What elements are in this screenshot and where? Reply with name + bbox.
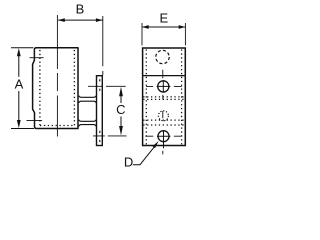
dimension B right extension line [102, 16, 104, 75]
vertical centerline front view [162, 70, 164, 155]
dimension A arrowhead up [17, 48, 21, 56]
svg-text:B: B [76, 2, 85, 17]
plate hidden line left [145, 50, 147, 145]
dimension E arrow line [142, 26, 185, 28]
middle hole circle [158, 81, 169, 92]
svg-text:D: D [124, 155, 133, 170]
middle hole crosshair [157, 80, 171, 92]
dimension E arrowhead right [179, 25, 186, 29]
bottom hole centerline dashes [145, 135, 181, 137]
body bore hidden line bottom [40, 125, 75, 127]
dimension A extension line bottom [11, 128, 34, 130]
hidden circle lower [158, 111, 168, 121]
dimension C arrowhead down [119, 126, 123, 135]
flange upper hole hidden dashes [99, 79, 101, 91]
lower hole centerline side view [93, 135, 127, 137]
plate hidden line right [181, 50, 183, 145]
front plate outline [143, 48, 186, 146]
middle hole centerline dashes [146, 85, 182, 87]
dimension A arrowhead down [17, 120, 21, 128]
hidden dots row upper a [143, 96, 185, 98]
body bore hidden line left [39, 50, 41, 126]
svg-text:A: A [15, 76, 24, 91]
dimension C arrow line lower [120, 117, 122, 132]
upper pin top line [79, 96, 97, 98]
dimension E arrowhead left [142, 25, 149, 29]
dimension B arrowhead left [58, 18, 65, 22]
lower pin bottom line [79, 125, 97, 127]
dimension E right extension [184, 23, 186, 45]
hidden circle top [156, 50, 169, 63]
dimension A arrow line upper [18, 53, 20, 77]
dimension B arrow line [58, 19, 102, 21]
bottom hole circle [158, 131, 169, 142]
hidden dots row lower a [143, 119, 185, 121]
dimension C arrowhead up [119, 87, 123, 96]
dimension A extension line top [11, 47, 33, 49]
flange lower hole hidden dashes [99, 131, 101, 142]
dimension B arrowhead right [96, 18, 103, 22]
lower terminal centerline [27, 120, 43, 122]
lower pin top line [79, 120, 97, 122]
dimension E left extension [141, 23, 143, 45]
hidden dots row upper b [143, 98, 185, 100]
hidden dots row lower b [143, 124, 185, 126]
upper hole centerline side view [88, 85, 126, 87]
flange side view [97, 76, 103, 146]
dimension C arrow line upper [120, 92, 122, 103]
plate divider line [143, 75, 186, 77]
body outline [33, 48, 78, 129]
dimension A arrow line lower [18, 91, 20, 124]
leader D arrowhead [152, 141, 158, 148]
svg-text:C: C [116, 102, 125, 117]
leader D tail [133, 144, 157, 165]
bottom hole crosshair [157, 131, 171, 148]
body centerline [56, 15, 58, 137]
upper terminal centerline [30, 57, 44, 59]
svg-text:E: E [159, 10, 168, 25]
body bore hidden line right [73, 50, 75, 126]
upper pin bottom line [79, 101, 97, 103]
